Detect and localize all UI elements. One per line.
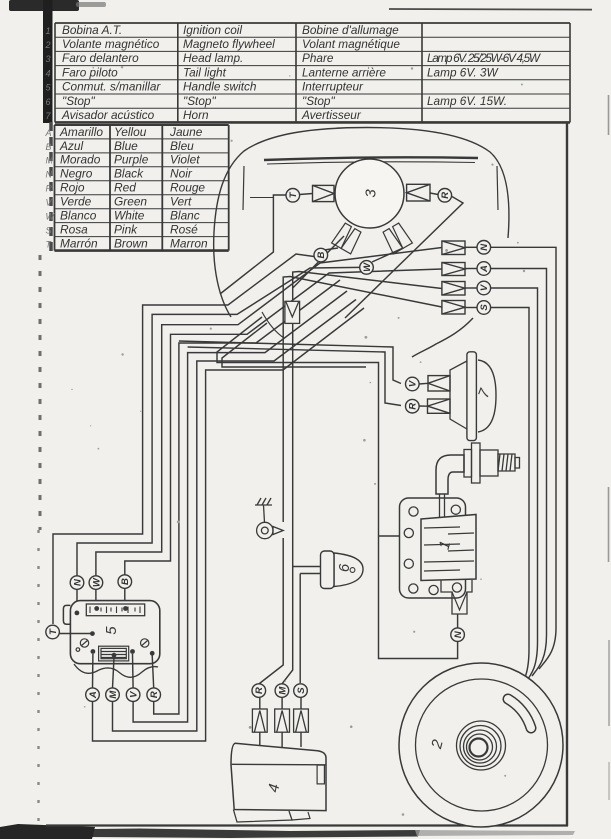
svg-text:M: M	[277, 686, 288, 695]
switch terminal dots	[75, 611, 80, 616]
wire w1: B circle to switch T terminal	[53, 254, 314, 624]
node circle S (tail)	[294, 684, 308, 698]
node circle M (switch)	[106, 688, 120, 702]
svg-text:Brown: Brown	[114, 236, 148, 250]
svg-text:Violet: Violet	[170, 153, 200, 167]
horn connector V	[428, 376, 450, 391]
wire: block 1 to N circle and down right side to magneto	[465, 246, 477, 248]
wire w7: bundle to switch M wire	[113, 300, 357, 732]
tail light 4 body	[231, 743, 326, 810]
node circle A	[477, 262, 491, 276]
ignition coil 1 mounting plate	[400, 498, 466, 598]
magneto flywheel 2 outer rim	[399, 663, 563, 827]
svg-text:M: M	[108, 690, 119, 699]
earth wire to block 4	[283, 277, 442, 523]
switch lower lead wires	[92, 654, 94, 688]
svg-text:W: W	[362, 262, 373, 272]
generator output connector block 1	[442, 241, 465, 255]
bulb bottom prongs right pair	[381, 222, 412, 254]
wire T circle to switch	[59, 633, 92, 635]
spark plug cap (elbow)	[436, 455, 464, 494]
svg-text:R: R	[254, 687, 265, 694]
switch left tab	[63, 605, 70, 624]
tail lamp connector block	[281, 698, 283, 710]
svg-text:W: W	[91, 577, 102, 587]
bulb bottom prongs left pair	[332, 222, 363, 254]
wire terminal to N	[457, 614, 459, 628]
svg-text:Morado: Morado	[60, 153, 101, 167]
svg-text:Rouge: Rouge	[170, 181, 205, 195]
horn funnel	[450, 361, 467, 429]
svg-text:S: S	[479, 304, 490, 311]
stop switch wire below connector	[292, 324, 294, 567]
svg-text:1: 1	[46, 26, 51, 36]
svg-text:Pink: Pink	[114, 222, 138, 236]
svg-text:Volant magnétique: Volant magnétique	[302, 37, 400, 51]
bulb right terminal block	[407, 184, 430, 201]
coil winding line	[424, 527, 460, 528]
horn 7 mounting plate	[467, 352, 477, 441]
wire w5: bundle to switch R wire	[154, 280, 340, 714]
svg-text:Amarillo: Amarillo	[59, 125, 103, 139]
svg-text:R: R	[149, 691, 160, 698]
svg-text:Interrupteur: Interrupteur	[302, 80, 364, 94]
tail lamp connector block	[300, 698, 302, 710]
coil winding line	[424, 570, 460, 571]
wire stop switch to tail S	[299, 574, 301, 684]
svg-text:M: M	[46, 156, 54, 166]
svg-text:Handle switch: Handle switch	[183, 80, 257, 94]
wire right block to R circle	[430, 193, 438, 195]
svg-text:Conmut. s/manillar: Conmut. s/manillar	[62, 80, 161, 94]
node circle R (tail)	[252, 684, 266, 698]
svg-text:R: R	[440, 192, 451, 199]
svg-text:"Stop": "Stop"	[62, 94, 95, 108]
svg-text:4: 4	[46, 68, 51, 78]
svg-text:Blanco: Blanco	[60, 209, 97, 223]
node circle S	[477, 301, 491, 315]
svg-text:6: 6	[336, 563, 353, 572]
svg-text:Lamp 6V. 25/25W-6V 4,5W: Lamp 6V. 25/25W-6V 4,5W	[427, 51, 542, 65]
svg-text:Rojo: Rojo	[60, 181, 85, 195]
svg-text:Faro delantero: Faro delantero	[62, 51, 139, 65]
horn connector R	[428, 399, 451, 413]
generator output connector block 3	[442, 282, 465, 296]
legend table (components, 3 languages + lamp specs)	[55, 23, 570, 122]
svg-text:Bobina A.T.: Bobina A.T.	[62, 23, 122, 37]
wavy cable loom under switch	[74, 664, 158, 677]
svg-text:V: V	[408, 380, 419, 387]
svg-text:S: S	[46, 225, 52, 235]
svg-text:2: 2	[45, 40, 51, 50]
node circle R (switch)	[147, 688, 161, 702]
svg-text:V: V	[128, 691, 139, 698]
node circle R (horn)	[406, 399, 420, 413]
coil mounting hole	[404, 528, 413, 537]
svg-text:3: 3	[363, 189, 380, 198]
horn feed wires (pair)	[179, 341, 401, 384]
handle switch 5 body	[70, 601, 159, 664]
wire: block 3 to V circle and down right side to magneto	[465, 287, 477, 289]
node circle R (headlamp)	[438, 189, 452, 203]
coil winding line	[448, 533, 474, 534]
svg-text:White: White	[114, 209, 145, 223]
coil mounting hole	[452, 583, 461, 592]
node circle N	[477, 241, 491, 255]
svg-text:Purple: Purple	[114, 153, 149, 167]
svg-text:6: 6	[46, 97, 51, 107]
earth wire down to tail R	[259, 538, 283, 684]
svg-text:Avisador acústico: Avisador acústico	[61, 108, 155, 122]
svg-text:Faro piloto: Faro piloto	[62, 65, 118, 79]
coil winding line	[448, 550, 474, 551]
wire right prong to W	[372, 248, 403, 262]
svg-text:Rosa: Rosa	[60, 222, 88, 236]
wire w4: connector block 2 to switch B terminal	[125, 269, 442, 601]
svg-text:Black: Black	[114, 167, 144, 181]
switch screws	[76, 639, 149, 652]
scan speckles	[71, 66, 525, 816]
svg-text:Lamp 6V. 3W: Lamp 6V. 3W	[427, 65, 499, 79]
head lamp rim lines	[264, 157, 478, 160]
HT lead from coil to plug cap	[439, 494, 441, 517]
node circle T (switch)	[46, 625, 60, 639]
svg-text:Phare: Phare	[302, 51, 334, 65]
stop lamp switch 6	[321, 551, 364, 589]
node circle B (switch)	[118, 575, 132, 589]
bulb left terminal block	[313, 185, 335, 201]
coil mounting hole	[409, 507, 418, 516]
switch centre slotted plate	[99, 646, 129, 661]
svg-text:B: B	[46, 142, 52, 152]
svg-text:Negro: Negro	[60, 167, 93, 181]
small shell arc near connector	[262, 312, 284, 338]
generator output connector block 4	[442, 301, 465, 315]
node circle M (tail)	[275, 684, 289, 698]
svg-text:N: N	[46, 170, 53, 180]
svg-text:A: A	[479, 265, 490, 273]
svg-text:R: R	[408, 403, 419, 410]
node circle N (coil)	[451, 628, 465, 642]
svg-text:Rosé: Rosé	[170, 222, 198, 236]
svg-text:Jaune: Jaune	[169, 125, 203, 139]
spark plug body	[464, 443, 520, 483]
svg-text:Azul: Azul	[59, 139, 83, 153]
svg-text:Bleu: Bleu	[170, 139, 194, 153]
generator output connector block 2	[442, 263, 465, 276]
wire stop switch to tail M	[282, 567, 293, 685]
ignition coil 1 body	[421, 515, 476, 581]
node circle W	[360, 261, 374, 275]
stop switch link wires	[293, 566, 321, 568]
svg-text:A: A	[88, 691, 99, 699]
svg-text:R: R	[46, 184, 53, 194]
coil mounting hole	[404, 559, 413, 568]
coil LT terminal step	[441, 580, 472, 614]
wire w3: connector block 1 to switch W terminal	[96, 248, 442, 602]
svg-text:Volante magnético: Volante magnético	[62, 37, 160, 51]
svg-text:Head lamp.: Head lamp.	[183, 51, 243, 65]
svg-text:Vert: Vert	[170, 195, 192, 209]
node circle N (switch)	[70, 576, 84, 590]
svg-text:3: 3	[46, 54, 51, 64]
flywheel slot	[508, 699, 531, 728]
wire w2: W circle to switch N terminal	[77, 267, 360, 601]
svg-text:Magneto flywheel: Magneto flywheel	[183, 37, 275, 51]
wire V circle to connector	[419, 382, 428, 385]
wire bundle: headlamp T wire (brown)	[220, 195, 286, 294]
coil winding line	[424, 561, 474, 562]
wire T circle to left block	[300, 194, 313, 195]
svg-text:V: V	[479, 284, 490, 291]
horn 7 dome	[478, 360, 496, 432]
flywheel hub	[457, 721, 506, 770]
node circle V (switch)	[126, 688, 140, 702]
svg-text:B: B	[120, 578, 131, 585]
coil terminal connector	[452, 592, 467, 610]
coil mounting hole	[409, 584, 418, 593]
svg-text:Horn: Horn	[183, 108, 209, 122]
coil winding line	[424, 544, 460, 545]
svg-text:Avertisseur: Avertisseur	[301, 108, 362, 122]
svg-text:A: A	[45, 128, 52, 138]
chassis earth symbol	[255, 498, 283, 539]
svg-text:"Stop": "Stop"	[183, 94, 216, 108]
tail lamp connector block	[259, 698, 261, 710]
svg-text:Marron: Marron	[170, 236, 208, 250]
head lamp housing shell	[214, 128, 509, 318]
svg-text:N: N	[453, 630, 464, 638]
wire w8: bundle to switch A wire	[93, 308, 365, 741]
svg-text:Bobine d'allumage: Bobine d'allumage	[302, 23, 399, 37]
head lamp bulb unit 3	[335, 159, 404, 228]
coil mounting hole	[429, 585, 438, 594]
svg-text:Red: Red	[114, 181, 136, 195]
svg-text:S: S	[296, 687, 307, 694]
wire left prong to B	[324, 248, 338, 250]
inline connector on stop wire	[285, 301, 300, 323]
svg-text:V: V	[46, 198, 53, 208]
svg-text:Tail light: Tail light	[183, 65, 227, 79]
drawing frame right edge	[566, 123, 568, 827]
svg-text:N: N	[479, 243, 490, 251]
node circle T (headlamp)	[286, 189, 300, 203]
tail light mounting skirt	[233, 810, 292, 823]
svg-text:Blanc: Blanc	[170, 209, 200, 223]
node circle B	[314, 248, 328, 262]
switch slider slot	[86, 604, 144, 616]
svg-text:N: N	[72, 578, 83, 586]
svg-text:Marrón: Marrón	[60, 236, 98, 250]
headlamp R wire diagonal 1	[345, 197, 463, 319]
drawing frame bottom edge	[46, 824, 568, 826]
svg-text:Lamp 6V. 15W.: Lamp 6V. 15W.	[427, 94, 507, 108]
branch to coil plate	[379, 535, 400, 537]
svg-text:Verde: Verde	[60, 195, 92, 209]
stop circuit wire to block 3	[293, 272, 442, 289]
node circle V	[477, 281, 491, 295]
headlamp R wire diagonal 2 into stop connector	[293, 236, 344, 302]
kill wire: staircase to ignition coil via N terminal	[217, 317, 458, 659]
svg-text:Yellou: Yellou	[114, 125, 147, 139]
svg-text:Noir: Noir	[170, 167, 193, 181]
svg-text:"Stop": "Stop"	[302, 94, 335, 108]
svg-text:5: 5	[103, 626, 120, 635]
svg-text:B: B	[316, 252, 327, 259]
svg-text:Blue: Blue	[114, 139, 138, 153]
svg-text:Green: Green	[114, 195, 147, 209]
svg-text:Ignition coil: Ignition coil	[183, 23, 242, 37]
wire: block 4 to S circle and down right side to magneto	[465, 307, 477, 309]
colour code table	[55, 125, 229, 251]
wire w6: bundle to switch V wire	[133, 291, 347, 722]
node circle A (switch)	[86, 688, 100, 702]
svg-text:Lanterne arrière: Lanterne arrière	[302, 65, 386, 79]
node circle V (horn)	[406, 377, 420, 391]
tail light lens notch	[317, 765, 324, 784]
wire R circle to connector	[419, 405, 428, 407]
wire: block 2 to A circle and down right side to magneto	[465, 268, 477, 270]
coil mounting hole	[451, 505, 460, 514]
node circle W (switch)	[89, 576, 103, 590]
